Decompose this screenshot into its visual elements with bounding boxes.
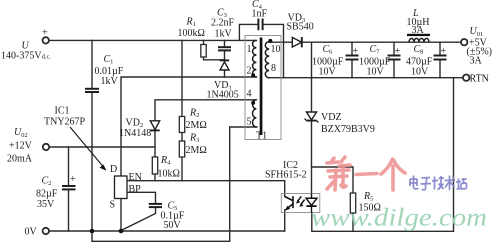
wire: R2R3 sense chain bbox=[181, 40, 183, 116]
svg-text:2: 2 bbox=[247, 66, 252, 77]
svg-text:3A: 3A bbox=[470, 56, 483, 67]
svg-text:0V: 0V bbox=[25, 227, 38, 238]
svg-text:BZX79B3V9: BZX79B3V9 bbox=[321, 124, 375, 135]
wire: RTN riser bbox=[453, 78, 455, 232]
svg-text:5: 5 bbox=[247, 117, 252, 128]
wire: secondary bottom rail bbox=[312, 230, 454, 232]
wire: opto emitter to 0V bbox=[284, 210, 286, 231]
phase dot pin4 bbox=[251, 101, 255, 105]
wire: secondary return bus bbox=[269, 77, 463, 79]
svg-text:SB540: SB540 bbox=[287, 22, 314, 33]
resistor R3 bbox=[179, 141, 184, 157]
phase dot pin10 bbox=[268, 39, 272, 43]
svg-text:140-375Vd.c.: 140-375Vd.c. bbox=[1, 51, 51, 62]
terminal 0V bbox=[43, 228, 49, 234]
svg-text:C8: C8 bbox=[414, 44, 424, 56]
svg-text:BP: BP bbox=[129, 184, 142, 195]
svg-text:RTN: RTN bbox=[470, 74, 489, 85]
transformer T1 outline box bbox=[245, 36, 281, 140]
IC1 pointer arrow bbox=[70, 127, 104, 167]
svg-text:T1: T1 bbox=[256, 131, 267, 142]
watermark blue site name bbox=[410, 176, 467, 191]
capacitor C7 bbox=[388, 56, 401, 60]
wire: source pin to 0V bbox=[120, 199, 122, 232]
wire: secondary +5V rail bbox=[269, 41, 461, 43]
svg-text:R5: R5 bbox=[363, 191, 373, 203]
transformer bias winding (pins 4-5) bbox=[252, 100, 256, 127]
watermark big pink characters bbox=[327, 157, 405, 190]
wire: VD2-R4 column bbox=[154, 131, 156, 157]
svg-text:U01: U01 bbox=[470, 26, 484, 38]
optocoupler LED bbox=[306, 194, 317, 213]
IC1 TNY267P body bbox=[115, 176, 128, 199]
svg-text:10V: 10V bbox=[411, 67, 429, 78]
wire: C3 clamp leads bbox=[224, 40, 226, 47]
wire: 0V rail (primary bottom) bbox=[49, 230, 285, 232]
svg-text:3A: 3A bbox=[412, 25, 425, 36]
wire: +12V bias input bbox=[50, 146, 156, 148]
svg-text:2MΩ: 2MΩ bbox=[186, 120, 207, 131]
svg-text:+: + bbox=[42, 28, 48, 39]
terminal +5V output bbox=[461, 39, 467, 45]
wire: C6 leads bbox=[351, 42, 353, 55]
svg-text:C2: C2 bbox=[42, 176, 52, 188]
svg-text:SFH615-2: SFH615-2 bbox=[265, 170, 307, 181]
capacitor C1 bbox=[85, 89, 99, 92]
diode VD2 bbox=[150, 121, 159, 131]
capacitor C2 bbox=[62, 186, 76, 189]
inductor L core bar bbox=[407, 34, 430, 36]
diode VD3 bbox=[292, 37, 302, 47]
capacitor C5 bbox=[149, 204, 162, 207]
svg-text:S: S bbox=[110, 200, 116, 211]
wire: lower return link bbox=[92, 127, 230, 241]
wire: C1 leads bbox=[91, 40, 93, 88]
wire: C7 leads bbox=[393, 42, 395, 55]
svg-text:10: 10 bbox=[271, 44, 281, 55]
svg-text:VDZ: VDZ bbox=[321, 112, 342, 123]
optocoupler phototransistor bbox=[285, 196, 293, 209]
svg-text:1kV: 1kV bbox=[215, 29, 233, 40]
svg-text:R3: R3 bbox=[189, 133, 199, 145]
svg-text:+: + bbox=[441, 46, 447, 57]
wire: C2 leads bbox=[68, 147, 70, 186]
svg-text:D: D bbox=[110, 164, 117, 175]
optocoupler light arrows bbox=[298, 196, 305, 204]
svg-text:1kV: 1kV bbox=[101, 76, 119, 87]
svg-text:+: + bbox=[70, 174, 76, 185]
svg-text:20mA: 20mA bbox=[7, 154, 33, 165]
svg-text:10V: 10V bbox=[367, 67, 385, 78]
wire: VD1 anode lead bbox=[224, 70, 226, 77]
junction dot S/0V bbox=[119, 229, 124, 234]
svg-text:IC1: IC1 bbox=[55, 106, 70, 117]
svg-text:U02: U02 bbox=[14, 127, 28, 139]
wire: R5 branch bbox=[312, 167, 354, 193]
transformer primary winding (pins 1-2) bbox=[252, 40, 256, 77]
svg-text:10kΩ: 10kΩ bbox=[158, 169, 180, 180]
svg-text:R2: R2 bbox=[189, 108, 199, 120]
svg-text:C1: C1 bbox=[104, 54, 114, 66]
wire: VDZ feedback column bbox=[311, 42, 313, 112]
svg-text:2.2nF: 2.2nF bbox=[211, 18, 235, 29]
svg-text:1nF: 1nF bbox=[252, 9, 268, 20]
svg-text:4: 4 bbox=[247, 89, 252, 100]
svg-text:8: 8 bbox=[271, 63, 276, 74]
svg-text:C7: C7 bbox=[370, 44, 381, 56]
capacitor C6 bbox=[346, 56, 359, 60]
svg-text:TNY267P: TNY267P bbox=[44, 117, 86, 128]
terminal U input + bbox=[43, 37, 49, 43]
phase dot pin2 bbox=[251, 73, 255, 77]
resistor R5 bbox=[350, 193, 355, 213]
svg-text:82µF: 82µF bbox=[36, 189, 58, 200]
svg-text:+: + bbox=[395, 46, 401, 57]
terminal U02 +12V bbox=[43, 144, 49, 150]
wire: R1 leads and clamp link bbox=[203, 40, 205, 44]
resistor R2 bbox=[179, 117, 184, 133]
diode VD1 bbox=[220, 60, 229, 70]
capacitor C3 bbox=[218, 47, 231, 50]
svg-text:1: 1 bbox=[247, 44, 252, 55]
svg-text:1N4005: 1N4005 bbox=[207, 90, 239, 101]
capacitor C4 bbox=[258, 19, 262, 31]
zener VDZ bbox=[305, 112, 319, 123]
svg-text:+12V: +12V bbox=[9, 141, 33, 152]
svg-text:R1: R1 bbox=[186, 17, 196, 29]
svg-text:+: + bbox=[353, 46, 359, 57]
wire: HV+ top rail bbox=[49, 39, 256, 41]
svg-text:EN: EN bbox=[129, 172, 142, 183]
wire: BP line bbox=[127, 192, 156, 203]
svg-text:R4: R4 bbox=[160, 155, 171, 167]
inductor L coil bbox=[409, 38, 429, 42]
transformer secondary winding (pins 10-8) bbox=[265, 42, 269, 78]
wire: C5 lead and diagonal to 0V bbox=[121, 207, 156, 230]
svg-text:35V: 35V bbox=[37, 199, 55, 210]
resistor R4 bbox=[152, 157, 157, 174]
svg-text:100kΩ: 100kΩ bbox=[178, 28, 205, 39]
wire: EN line to opto collector bbox=[127, 181, 285, 197]
wire: pin5 lead bbox=[230, 126, 257, 128]
svg-text:www.dilge.com: www.dilge.com bbox=[311, 205, 487, 232]
transformer core bbox=[260, 38, 263, 136]
optocoupler IC2 box bbox=[281, 194, 320, 213]
junction dot C1/0V bbox=[90, 229, 95, 234]
svg-text:2MΩ: 2MΩ bbox=[186, 145, 207, 156]
wire: pin2 to drain bbox=[121, 77, 257, 176]
resistor R1 bbox=[201, 45, 206, 58]
svg-text:50V: 50V bbox=[164, 220, 182, 231]
terminal RTN bbox=[463, 75, 469, 81]
wire: C4 leads bbox=[239, 24, 258, 40]
svg-text:10V: 10V bbox=[319, 67, 337, 78]
wire: C8 leads bbox=[439, 42, 441, 55]
wire: pin4 feed bbox=[155, 100, 257, 121]
capacitor C8 bbox=[434, 56, 447, 60]
wire: opto LED cathode drop bbox=[311, 213, 313, 232]
svg-text:1N4148: 1N4148 bbox=[119, 128, 151, 139]
svg-text:C6: C6 bbox=[323, 44, 334, 56]
